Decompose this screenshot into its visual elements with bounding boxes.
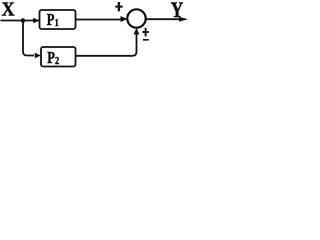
node branch junction	[21, 18, 26, 23]
arrowhead output Y	[179, 17, 188, 22]
svg-text:P: P	[47, 11, 55, 29]
svg-text:2: 2	[55, 56, 59, 67]
input label X	[2, 0, 15, 21]
block P1	[40, 10, 76, 30]
arrowhead into summing junction bottom	[134, 28, 140, 35]
svg-text:1: 1	[55, 18, 59, 29]
wire summing junction to Y	[146, 18, 186, 20]
block P2	[41, 47, 76, 67]
wire branch down and to P2	[23, 21, 34, 56]
wire P2 up into summing junction	[76, 34, 137, 56]
wire P1 to summing junction	[76, 19, 122, 21]
output label Y	[171, 0, 184, 23]
plus-minus sign bottom input	[142, 28, 148, 40]
arrowhead into P2	[35, 53, 41, 59]
svg-text:Y: Y	[171, 0, 184, 23]
plus sign top input	[115, 2, 122, 11]
arrowhead into summing junction left	[121, 16, 128, 22]
svg-text:X: X	[2, 0, 15, 21]
svg-text:P: P	[47, 49, 55, 67]
arrowhead into P1	[33, 18, 39, 24]
summing junction circle	[127, 9, 145, 27]
wire X to branch node	[1, 20, 40, 22]
